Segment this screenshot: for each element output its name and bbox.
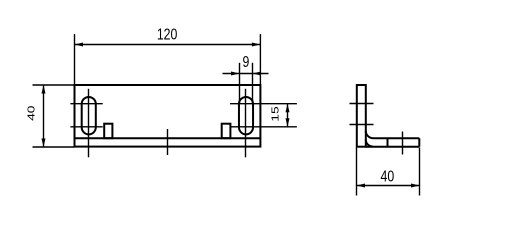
svg-text:40: 40: [25, 105, 37, 121]
svg-text:40: 40: [381, 168, 395, 186]
svg-text:9: 9: [242, 54, 249, 72]
svg-text:120: 120: [157, 26, 178, 44]
svg-text:15: 15: [269, 106, 281, 122]
